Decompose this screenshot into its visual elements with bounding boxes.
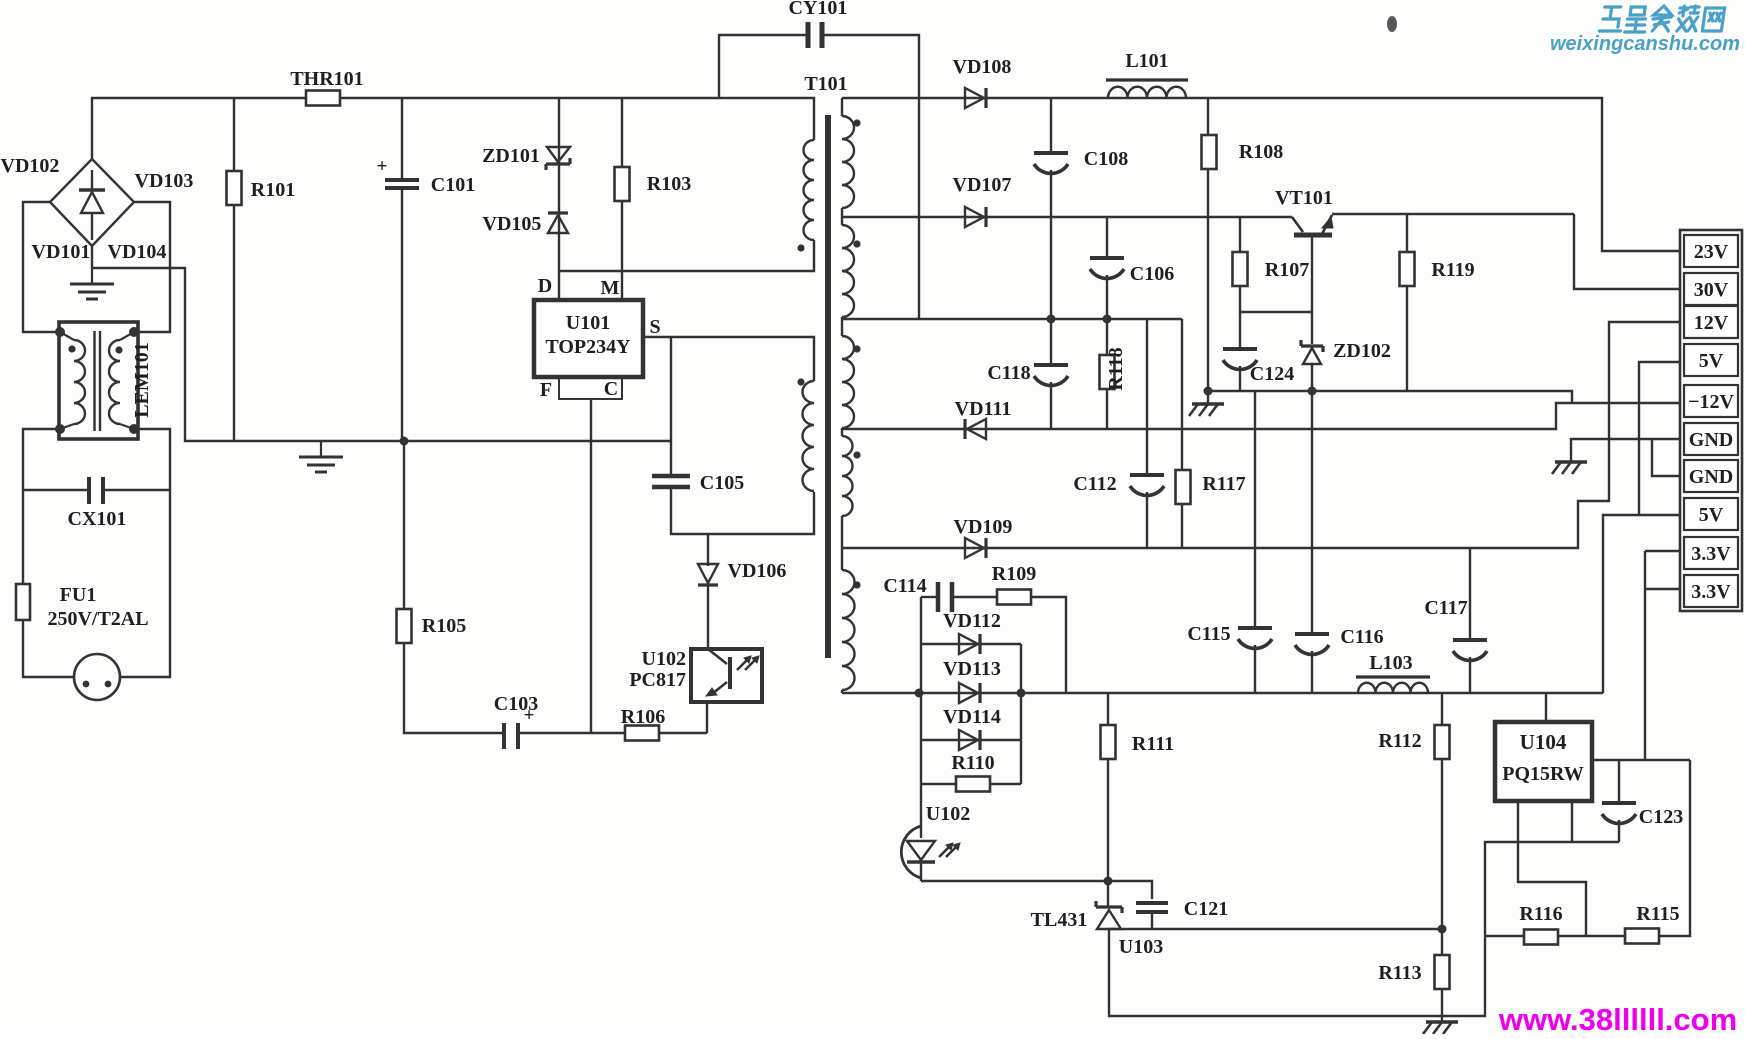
svg-text:L103: L103 [1369,652,1412,674]
svg-text:12V: 12V [1694,312,1729,334]
svg-text:30V: 30V [1694,279,1729,301]
svg-text:R101: R101 [251,179,295,201]
svg-text:F: F [540,379,552,401]
svg-text:VD101: VD101 [32,241,91,263]
svg-text:R118: R118 [1105,347,1127,390]
svg-text:GND: GND [1689,429,1733,451]
svg-text:VD114: VD114 [943,706,1001,728]
svg-text:S: S [649,316,660,338]
svg-text:CY101: CY101 [789,0,848,19]
svg-text:C108: C108 [1084,148,1128,170]
svg-text:ZD101: ZD101 [482,145,540,167]
svg-text:R108: R108 [1239,141,1283,163]
svg-text:VD106: VD106 [728,560,787,582]
svg-text:C121: C121 [1184,898,1228,920]
svg-text:R112: R112 [1378,730,1421,752]
svg-text:C123: C123 [1639,806,1683,828]
svg-text:R105: R105 [422,615,466,637]
svg-text:U103: U103 [1119,936,1163,958]
svg-text:R117: R117 [1202,473,1245,495]
svg-text:VD104: VD104 [108,241,167,263]
svg-text:C105: C105 [700,472,744,494]
svg-text:VT101: VT101 [1275,187,1333,209]
svg-text:VD113: VD113 [943,658,1001,680]
svg-text:R106: R106 [621,706,665,728]
svg-text:VD108: VD108 [953,56,1012,78]
svg-text:THR101: THR101 [290,68,363,90]
svg-text:C115: C115 [1187,623,1230,645]
svg-text:R115: R115 [1636,903,1679,925]
svg-text:C117: C117 [1424,597,1467,619]
svg-text:D: D [538,275,552,297]
svg-text:VD107: VD107 [953,174,1012,196]
svg-text:www.38llllll.com: www.38llllll.com [1498,1002,1737,1034]
svg-text:VD102: VD102 [1,155,60,177]
svg-text:23V: 23V [1694,241,1729,263]
svg-text:250V/T2AL: 250V/T2AL [47,608,148,630]
svg-text:R103: R103 [647,173,691,195]
svg-text:PQ15RW: PQ15RW [1502,763,1584,785]
svg-text:FU1: FU1 [60,584,97,606]
svg-text:R111: R111 [1132,733,1174,755]
svg-text:LEM101: LEM101 [131,342,153,418]
svg-text:ZD102: ZD102 [1333,340,1391,362]
svg-text:5V: 5V [1699,504,1724,526]
svg-text:CX101: CX101 [68,508,127,530]
svg-text:GND: GND [1689,466,1733,488]
svg-text:T101: T101 [804,73,847,95]
svg-text:U101: U101 [566,312,610,334]
svg-text:C: C [604,378,618,400]
svg-text:M: M [601,277,620,299]
svg-text:U104: U104 [1520,730,1567,754]
svg-text:5V: 5V [1699,350,1724,372]
svg-text:L101: L101 [1125,50,1168,72]
svg-text:R110: R110 [951,752,994,774]
svg-text:TL431: TL431 [1031,909,1088,931]
svg-text:C114: C114 [883,575,926,597]
svg-text:+: + [524,705,535,726]
svg-text:+: + [377,156,388,177]
svg-text:U102: U102 [642,648,686,670]
svg-text:VD111: VD111 [955,398,1012,420]
svg-text:C116: C116 [1340,626,1383,648]
svg-text:C118: C118 [987,362,1030,384]
svg-text:C112: C112 [1073,473,1116,495]
svg-text:R109: R109 [992,563,1036,585]
svg-text:VD105: VD105 [483,213,542,235]
svg-text:weixingcanshu.com: weixingcanshu.com [1550,33,1740,55]
svg-text:−12V: −12V [1688,391,1734,413]
svg-text:3.3V: 3.3V [1691,543,1731,565]
svg-text:R119: R119 [1431,259,1474,281]
svg-text:VD109: VD109 [954,516,1013,538]
svg-text:VD103: VD103 [135,170,194,192]
svg-text:C106: C106 [1130,263,1174,285]
svg-text:U102: U102 [926,803,970,825]
svg-text:3.3V: 3.3V [1691,581,1731,603]
svg-text:PC817: PC817 [629,669,686,691]
svg-text:C124: C124 [1250,363,1294,385]
svg-text:TOP234Y: TOP234Y [545,336,631,358]
svg-text:VD112: VD112 [943,610,1001,632]
svg-text:R116: R116 [1519,903,1562,925]
svg-text:R107: R107 [1265,259,1309,281]
svg-text:C101: C101 [431,174,475,196]
svg-text:R113: R113 [1378,962,1421,984]
